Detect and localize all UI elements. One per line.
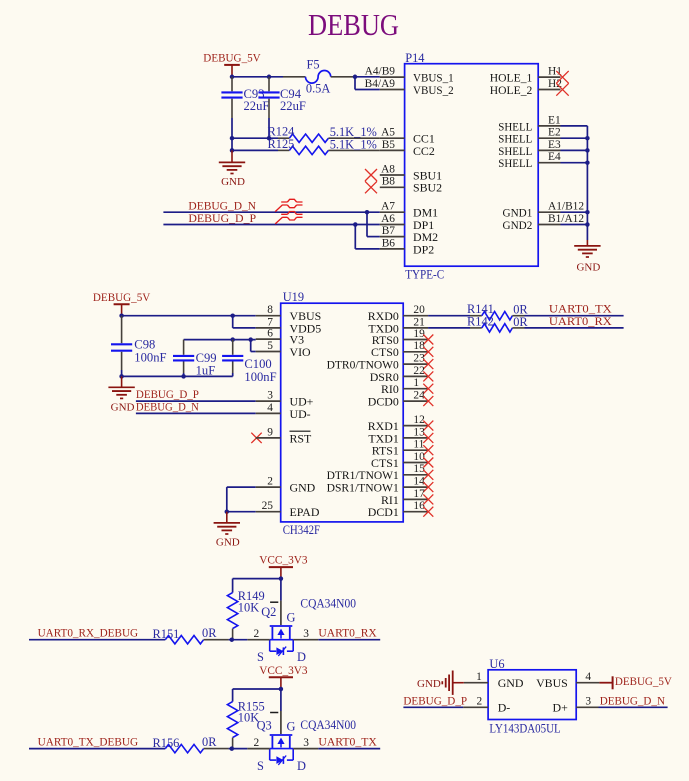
svg-text:R125: R125 [268,137,295,151]
svg-text:GND: GND [221,176,245,188]
svg-text:11: 11 [413,439,424,451]
wire DEBUG_D_P to U6 D- [403,706,463,708]
svg-text:H1: H1 [548,66,562,78]
svg-text:10K: 10K [238,600,259,614]
no-connect X pin 23 [423,359,433,369]
junction pin5 branch [248,337,253,342]
svg-text:0R: 0R [513,315,528,329]
pin 3 UD+ [256,400,281,402]
svg-text:GND2: GND2 [503,218,533,232]
svg-text:D+: D+ [553,701,569,715]
svg-text:B5: B5 [382,139,396,151]
no-connect X pin 22 [423,371,433,381]
wire V3 row to pin 6 [184,339,256,341]
svg-text:17: 17 [413,488,425,500]
pin B5 CC2 [380,149,405,151]
pin A5 CC1 [380,137,405,139]
svg-text:3: 3 [267,390,273,402]
svg-text:16: 16 [413,500,425,512]
wire DEBUG_D_N to DM1/DM2 [163,211,379,213]
svg-text:CQA34N00: CQA34N00 [300,718,356,732]
ground GND (top left) [231,150,233,162]
svg-text:DEBUG: DEBUG [308,8,399,42]
pin E2 SHELL [538,137,560,139]
svg-text:C98: C98 [134,338,155,352]
svg-text:B6: B6 [382,237,396,249]
wire SHELL/GND bus right of P14 [561,125,588,127]
no-connect X on RST pin 9 [251,433,261,443]
power flag VCC_3V3 (Q3) [269,676,293,678]
wire DEBUG_5V rail to pin 8 [122,315,256,317]
wire branch to VIO pin 5 [250,340,252,352]
pin 5 VIO [256,351,281,353]
svg-text:7: 7 [267,316,273,328]
wire R156 to Q3 source [229,748,248,750]
junction GND1 [585,210,590,215]
svg-text:GND: GND [498,676,524,690]
svg-text:RST: RST [290,431,313,445]
svg-text:UART0_RX: UART0_RX [549,314,612,328]
svg-text:18: 18 [413,340,425,352]
pin 4 VBUS (U6) [576,682,599,684]
svg-text:U19: U19 [283,290,304,304]
power flag VCC_3V3 (Q2) [269,566,293,568]
junction at C94 top [267,75,272,80]
junction pin7 branch [230,313,235,318]
pin 25 EPAD [256,511,281,513]
wire UART0_TX (Q3 drain) [318,748,380,750]
svg-text:13: 13 [413,426,425,438]
svg-text:DEBUG_D_P: DEBUG_D_P [403,694,467,708]
svg-text:CC2: CC2 [413,144,435,158]
junction GND2 [585,222,590,227]
svg-text:UART0_RX_DEBUG: UART0_RX_DEBUG [38,625,139,639]
svg-text:DEBUG_D_N: DEBUG_D_N [136,400,199,414]
pin 4 UD- [256,412,281,414]
pin 19 RTS0 [403,339,428,341]
svg-text:4: 4 [585,671,591,683]
svg-text:2: 2 [253,628,259,640]
pin B1/A12 GND2 [538,224,560,226]
svg-text:3: 3 [303,628,309,640]
svg-text:DEBUG_5V: DEBUG_5V [93,290,151,304]
differential pair marker DEBUG_D_N [275,199,302,211]
power flag DEBUG_5V (top) [224,64,240,66]
svg-text:U6: U6 [489,657,504,671]
no-connect X on HOLE_2 [556,83,568,95]
pin A1/B12 GND1 [538,211,560,213]
IC U19 CH342F box [281,303,404,522]
pin E4 SHELL [538,162,560,164]
pin A8 SBU1 [380,174,405,176]
svg-text:8: 8 [267,304,273,316]
wire GND column top section [231,138,233,150]
svg-text:22uF: 22uF [280,99,306,113]
junction DM branch [365,210,370,215]
svg-text:TYPE-C: TYPE-C [405,267,444,281]
pin 2 GND [256,486,281,488]
no-connect X pin 17 [423,494,433,504]
pin B4/A9 VBUS_2 [380,89,405,91]
svg-text:B8: B8 [382,176,396,188]
resistor R151 0R [165,636,203,644]
junction EPAD [225,509,230,514]
junction C98 top [119,313,124,318]
no-connect X pin 15 [423,470,433,480]
power flag DEBUG_5V (U19) [114,303,130,305]
svg-text:E4: E4 [548,151,561,163]
no-connect X pin 11 [423,445,433,455]
junction E3 [585,148,590,153]
pin 1 GND (U6) [464,682,488,684]
no-connect X pin 1 [423,384,433,394]
svg-text:1uF: 1uF [196,364,216,378]
svg-text:4: 4 [267,402,273,414]
ground GND (U19 decoupling) [121,376,123,387]
svg-text:DEBUG_D_P: DEBUG_D_P [188,211,256,225]
pin E3 SHELL [538,149,560,151]
svg-text:GND: GND [417,678,441,690]
svg-text:Q2: Q2 [261,605,276,619]
svg-text:G: G [287,610,296,624]
svg-text:A4/B9: A4/B9 [365,66,396,78]
junction at VBUS branch [353,75,358,80]
pin 6 V3 [256,338,281,340]
pin 13 TXD1 [403,437,428,439]
svg-text:5.1K_1%: 5.1K_1% [330,137,377,151]
junction C98 bottom [119,374,124,379]
svg-text:R142: R142 [467,314,494,328]
svg-text:G: G [287,719,296,733]
resistor R141 0R [428,315,470,317]
pin E1 SHELL [538,125,560,127]
pin A6 DP1 [380,224,405,226]
pin H1 HOLE_1 [538,76,560,78]
svg-text:25: 25 [262,500,274,512]
svg-text:DCD1: DCD1 [368,505,399,519]
pin A4/B9 VBUS_1 [380,76,405,78]
junction Q2 source/R149 [230,637,235,642]
pin 12 RXD1 [403,425,428,427]
capacitor C93 [231,77,233,92]
differential pair marker DEBUG_D_P [275,212,302,224]
svg-text:2: 2 [476,696,482,708]
wire UART0_TX [525,315,624,317]
svg-text:14: 14 [413,476,425,488]
capacitor C100 [232,340,234,355]
wire R151 to Q2 source [229,639,248,641]
svg-text:Q3: Q3 [257,719,272,733]
pin 14 DSR1/TNOW1 [403,486,428,488]
wire DEBUG_D_P to UD+ [136,400,256,402]
svg-text:GND: GND [290,481,316,495]
svg-text:R156: R156 [153,736,180,750]
svg-text:1: 1 [476,671,482,683]
no-connect X pin 19 [423,335,433,345]
svg-text:UART0_RX: UART0_RX [318,626,377,640]
svg-text:100nF: 100nF [134,351,166,365]
junction Q3 source/R155 [230,746,235,751]
svg-text:E2: E2 [548,127,561,139]
svg-text:22uF: 22uF [244,99,270,113]
wire DEBUG_D_P to DP1/DP2 [163,224,379,226]
junction E2 [585,136,590,141]
svg-text:0R: 0R [202,626,217,640]
svg-text:LY143DA05UL: LY143DA05UL [489,721,560,735]
svg-text:DCD0: DCD0 [368,395,399,409]
power flag DEBUG_5V (U6, bar right) [599,682,612,684]
ground GND (right of P14) [586,240,588,246]
pin 21 TXD0 [403,327,428,329]
svg-text:VCC_3V3: VCC_3V3 [259,663,307,677]
svg-text:5: 5 [267,340,273,352]
junction at C93 top [230,75,235,80]
svg-text:20: 20 [413,304,425,316]
wire UART0_RX [525,327,624,329]
svg-text:S: S [257,759,264,773]
svg-text:D-: D- [498,701,511,715]
no-connect X pin 13 [423,433,433,443]
ground GND (U19 EPAD) [226,512,228,523]
resistor R124 5.1K_1% [278,137,289,139]
no-connect X pin 12 [423,421,433,431]
no-connect X pin 10 [423,458,433,468]
wire UART0_RX_DEBUG to R151 [29,639,165,641]
svg-text:6: 6 [267,328,273,340]
svg-text:3: 3 [585,696,591,708]
no-connect X on SBU1 [365,169,377,181]
svg-text:A5: A5 [381,127,395,139]
svg-text:VBUS: VBUS [536,676,568,690]
no-connect X on HOLE_1 [556,71,568,83]
pin B6 DP2 [380,248,405,250]
junction C99 bottom [181,374,186,379]
junction C94 bottom [267,136,272,141]
svg-text:SBU2: SBU2 [413,181,442,195]
svg-text:DP2: DP2 [413,242,434,256]
wire decoupling ground rail [122,375,233,377]
no-connect X pin 18 [423,347,433,357]
svg-text:F5: F5 [307,57,320,71]
svg-text:DEBUG_5V: DEBUG_5V [203,51,261,65]
svg-text:B1/A12: B1/A12 [548,213,584,225]
pin H2 HOLE_2 [538,89,560,91]
svg-text:B7: B7 [382,225,396,237]
svg-text:EPAD: EPAD [290,505,320,519]
wire DEBUG_D_N to UD- [136,412,256,414]
pin 20 RXD0 [403,315,428,317]
fuse F5 [283,76,306,78]
svg-text:DEBUG_D_N: DEBUG_D_N [600,694,666,708]
pin 8 VBUS [256,315,281,317]
svg-text:UD-: UD- [290,407,311,421]
no-connect X on SBU2 [365,181,377,193]
svg-text:22: 22 [413,365,425,377]
svg-text:VBUS_2: VBUS_2 [413,83,454,97]
pin 11 RTS1 [403,449,428,451]
pin 17 RI1 [403,498,428,500]
pin 10 CTS1 [403,462,428,464]
svg-text:23: 23 [413,353,425,365]
transistor Q3 CQA34N00 [233,688,281,690]
svg-text:E1: E1 [548,114,561,126]
svg-text:0R: 0R [202,735,217,749]
svg-text:VIO: VIO [290,345,312,359]
svg-text:GND: GND [576,261,600,273]
svg-text:CQA34N00: CQA34N00 [300,597,356,611]
svg-text:A7: A7 [381,201,395,213]
svg-text:3: 3 [303,737,309,749]
pin B7 DM2 [380,236,405,238]
svg-text:A8: A8 [381,163,395,175]
pin 18 CTS0 [403,351,428,353]
svg-text:GND: GND [111,402,135,414]
svg-text:A6: A6 [381,213,395,225]
IC U6 LY143DA05UL box [488,670,576,720]
svg-text:0.5A: 0.5A [306,82,330,96]
svg-text:2: 2 [267,476,273,488]
no-connect X pin 14 [423,482,433,492]
pin A7 DM1 [380,211,405,213]
wire branch to VDD5 pin 7 [232,316,234,328]
svg-text:100nF: 100nF [244,370,276,384]
junction R124 row [230,136,235,141]
resistor R142 0R [428,327,470,329]
pin 24 DCD0 [403,400,428,402]
wire UART0_RX (Q2 drain) [318,639,380,641]
svg-text:19: 19 [413,328,425,340]
svg-text:1: 1 [413,377,419,389]
wire GND pin2/EPAD [227,486,256,488]
svg-text:D: D [297,759,306,773]
svg-text:CH342F: CH342F [283,523,320,537]
svg-text:P14: P14 [405,51,424,65]
transistor Q2 CQA34N00 [233,578,281,580]
pin 22 DSR0 [403,375,428,377]
pin B8 SBU2 [380,186,405,188]
svg-text:UART0_TX: UART0_TX [318,735,377,749]
svg-text:B4/A9: B4/A9 [365,78,396,90]
pin 16 DCD1 [403,511,428,513]
svg-text:GND: GND [216,537,240,549]
pin 23 DTR0/TNOW0 [403,363,428,365]
svg-text:UART0_TX_DEBUG: UART0_TX_DEBUG [38,734,139,748]
junction C100 top [230,337,235,342]
resistor R156 0R [165,744,203,752]
svg-text:R151: R151 [153,627,180,641]
pin 9 RST [256,437,281,439]
capacitor C99 [183,340,185,355]
svg-text:SHELL: SHELL [498,156,532,170]
junction R125 row [230,148,235,153]
capacitor C94 [268,77,270,92]
svg-text:15: 15 [413,463,425,475]
svg-text:2: 2 [253,737,259,749]
wire DEBUG_D_N from U6 D+ [599,706,668,708]
svg-text:24: 24 [413,390,425,402]
wire DEBUG_5V top rail [232,76,283,78]
svg-text:VCC_3V3: VCC_3V3 [259,553,307,567]
wire UART0_TX_DEBUG to R156 [29,748,165,750]
junction DP branch [353,222,358,227]
pin 3 D+ (U6) [576,706,598,708]
wire fuse output to VBUS pins [355,76,380,78]
resistor R125 5.1K_1% [278,149,289,151]
connector P14 TYPE-C box [405,64,539,267]
svg-text:10: 10 [413,451,425,463]
pin 15 DTR1/TNOW1 [403,474,428,476]
no-connect X pin 16 [423,507,433,517]
no-connect X pin 24 [423,396,433,406]
svg-text:DEBUG_5V: DEBUG_5V [615,674,672,688]
pin 7 VDD5 [256,327,281,329]
svg-text:9: 9 [267,426,273,438]
svg-text:HOLE_2: HOLE_2 [490,83,533,97]
capacitor C98 [121,316,123,324]
svg-text:E3: E3 [548,139,561,151]
svg-text:12: 12 [413,414,425,426]
wire CC nets to resistors [232,137,278,139]
pin 2 D- (U6) [463,706,488,708]
pin 1 RI0 [403,388,428,390]
svg-text:21: 21 [413,316,425,328]
svg-text:A1/B12: A1/B12 [548,201,584,213]
svg-text:C100: C100 [244,357,271,371]
junction E4 [585,160,590,165]
